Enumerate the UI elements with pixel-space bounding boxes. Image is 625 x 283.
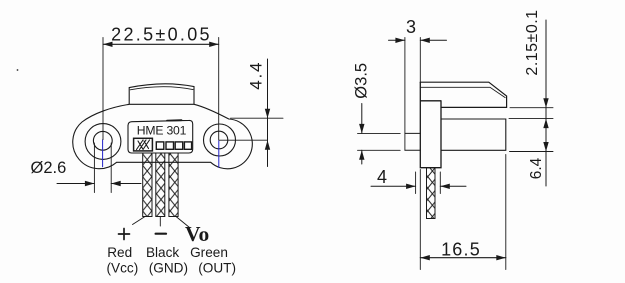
svg-text:6.4: 6.4 <box>528 157 545 179</box>
lead 2 <box>156 152 165 217</box>
ext line B <box>509 118 553 120</box>
hump inner crown line <box>130 87 193 90</box>
dim 16.5 line <box>420 257 506 259</box>
svg-text:4.4: 4.4 <box>246 61 265 90</box>
dim 4.4 extension lines <box>219 118 283 140</box>
dim 4.4 arrow top <box>265 109 270 119</box>
logo scribble <box>137 140 150 150</box>
svg-text:3: 3 <box>406 17 416 37</box>
hole section lines (Ø3.5) <box>405 133 420 150</box>
label plate top dark segment <box>167 119 182 121</box>
lead 1 <box>143 152 152 217</box>
ext line C <box>510 151 554 153</box>
dim 4.4 line <box>267 59 269 167</box>
dim 3 line+arrows <box>389 39 447 41</box>
svg-text:Black: Black <box>146 245 179 260</box>
dim 22.5±0.05 line <box>103 43 219 45</box>
left hole <box>93 131 112 150</box>
minus sign <box>156 233 166 235</box>
svg-text:(OUT): (OUT) <box>198 261 236 276</box>
right hole <box>210 131 228 149</box>
ext line A <box>510 107 553 109</box>
svg-text:Red: Red <box>107 245 132 260</box>
svg-text:16.5: 16.5 <box>441 239 481 259</box>
boss bar <box>420 82 441 167</box>
svg-text:Vo: Vo <box>185 222 209 246</box>
dim Ø2.6 arrow left <box>57 183 94 185</box>
svg-text:(Vcc): (Vcc) <box>107 261 139 276</box>
centerline left hole (blue) <box>102 140 104 167</box>
dim 22.5 arrow left <box>103 42 113 47</box>
dim 4.4 arrow bottom <box>265 140 270 150</box>
centerline right hole (blue) <box>218 141 220 167</box>
svg-text:2.15±0.1: 2.15±0.1 <box>524 9 541 75</box>
lead 3 <box>169 152 178 217</box>
dim 4 ticks <box>416 172 441 194</box>
dim Ø2.6 extension lines <box>94 143 111 193</box>
label plate <box>128 120 193 153</box>
logo box <box>134 138 153 151</box>
dim Ø2.6 arrow right <box>111 183 141 185</box>
cap inner lines <box>420 87 505 97</box>
2.15 arrows <box>543 98 548 108</box>
leader line 3 <box>176 217 190 228</box>
svg-text:Ø2.6: Ø2.6 <box>31 159 67 177</box>
right boss circle <box>204 124 236 156</box>
pin squares <box>156 142 164 149</box>
main block <box>441 119 506 150</box>
dim 16.5 extension lines <box>420 155 506 270</box>
flange plate left edge <box>404 38 406 151</box>
svg-text:HME 301: HME 301 <box>137 124 187 138</box>
svg-text:Green: Green <box>190 245 228 260</box>
flange plate right edge / boss front ext <box>419 38 421 83</box>
body outline <box>73 84 253 169</box>
svg-text:Ø3.5: Ø3.5 <box>352 63 370 99</box>
stray dot <box>17 69 19 71</box>
leader line 1 <box>133 217 146 225</box>
leader line 2 <box>159 217 161 227</box>
dim Ø3.5 extension lines <box>358 133 401 150</box>
left boss circle <box>85 124 121 160</box>
svg-text:4: 4 <box>377 167 387 187</box>
svg-text:(GND): (GND) <box>149 261 188 276</box>
dim 22.5 arrow right <box>209 42 219 47</box>
cap top <box>420 82 506 107</box>
dim 22.5±0.05 extension lines <box>103 38 219 140</box>
plus sign <box>119 229 130 240</box>
lead side <box>427 168 436 219</box>
svg-text:22.5±0.05: 22.5±0.05 <box>111 25 212 45</box>
